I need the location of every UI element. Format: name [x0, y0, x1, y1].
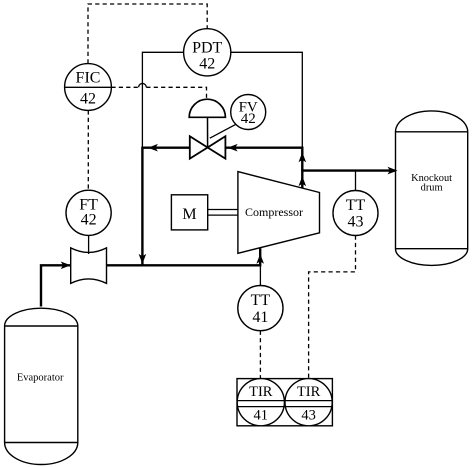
transmitter TT 41 tap	[259, 265, 261, 286]
signal wire: TT 41 to TIR 41 (dashed)	[259, 331, 261, 379]
impulse line: PDT left tap to valve outlet line	[142, 52, 183, 147]
svg-text:TT: TT	[251, 292, 271, 309]
process line: evaporator overhead to compressor suction	[41, 248, 260, 306]
svg-text:TIR: TIR	[297, 384, 321, 400]
process line: recycle valve outlet down to suction	[142, 148, 189, 265]
signal wire: FIC 42 to FT 42 (dashed)	[87, 110, 89, 190]
vessel: evaporator	[5, 308, 78, 464]
svg-text:43: 43	[301, 408, 316, 424]
motor M coupling (double line)	[208, 209, 239, 211]
svg-text:M: M	[182, 206, 196, 223]
shared display double line	[237, 400, 332, 402]
transmitter FT 42 lead to venturi	[88, 235, 90, 254]
process line: discharge to recycle valve inlet	[225, 148, 302, 171]
signal wire: FIC 42 to valve FV 42 (dashed, with hop over impulse line)	[111, 86, 138, 88]
tag leader line FV 42	[210, 124, 236, 138]
svg-text:42: 42	[81, 212, 97, 229]
svg-text:Compressor: Compressor	[245, 205, 303, 219]
wire hop over impulse line	[139, 83, 147, 87]
vessel: knockout drum	[396, 111, 468, 266]
control valve body (bowtie)	[190, 136, 226, 158]
transmitter FT 42	[66, 190, 111, 235]
signal wire: PDT 42 to FIC 42 (top dashed loop)	[88, 4, 207, 63]
transmitter PDT 42	[184, 29, 231, 76]
valve actuator diaphragm dome	[189, 99, 225, 117]
motor M	[171, 195, 207, 230]
recorder TIR 41 bubble	[237, 379, 284, 426]
svg-text:drum: drum	[421, 183, 443, 194]
flow arrow into compressor suction	[256, 254, 264, 264]
svg-text:FIC: FIC	[76, 70, 101, 87]
transmitter TT 41	[238, 286, 283, 331]
recorder TIR 43 bubble	[285, 379, 332, 426]
svg-text:Evaporator: Evaporator	[17, 372, 64, 383]
svg-text:41: 41	[254, 408, 269, 424]
svg-text:42: 42	[80, 91, 96, 108]
tag circle FV 42	[231, 95, 266, 130]
svg-text:41: 41	[252, 309, 268, 326]
svg-text:42: 42	[241, 111, 256, 127]
transmitter TT 43	[333, 191, 378, 236]
valve actuator stem	[207, 117, 209, 147]
svg-text:42: 42	[199, 56, 215, 73]
svg-text:43: 43	[348, 214, 364, 231]
impulse line: PDT right tap to recycle riser	[231, 52, 302, 147]
process line: compressor discharge riser and line to knockout drum	[302, 171, 396, 189]
flow element venturi (FE)	[71, 248, 107, 284]
controller FIC 42	[65, 64, 112, 111]
svg-text:TIR: TIR	[249, 384, 273, 400]
svg-text:TT: TT	[346, 197, 366, 214]
transmitter TT 43 tap	[355, 171, 357, 192]
svg-text:PDT: PDT	[192, 39, 222, 56]
flow arrow into venturi	[61, 262, 71, 270]
signal wire: TT 43 to TIR 43 (dashed)	[309, 236, 356, 379]
shared recorder TIR 41 / TIR 43 box	[237, 379, 332, 426]
compressor	[238, 172, 320, 254]
